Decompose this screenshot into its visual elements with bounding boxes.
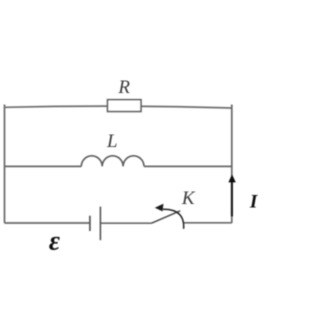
inductor L coil (81, 156, 144, 167)
current arrow I head (228, 174, 235, 182)
wire left vertical (4, 105, 6, 224)
resistor R box (108, 100, 142, 112)
svg-text:K: K (181, 188, 196, 209)
current arrow I shaft (231, 181, 233, 217)
svg-text:I: I (249, 192, 258, 213)
svg-text:ε: ε (49, 226, 60, 256)
switch K motion arc (163, 209, 184, 229)
svg-text:L: L (106, 131, 118, 152)
wire bottom horizontal (5, 222, 232, 224)
battery long plate (positive) (99, 207, 101, 241)
battery short plate (negative) (89, 216, 91, 231)
switch K arc arrowhead (155, 204, 164, 212)
wire right vertical (231, 105, 233, 224)
switch K blade (152, 211, 181, 223)
wire top horizontal (5, 106, 232, 108)
svg-text:R: R (117, 77, 130, 98)
wire middle horizontal (inductor branch) (5, 165, 232, 167)
